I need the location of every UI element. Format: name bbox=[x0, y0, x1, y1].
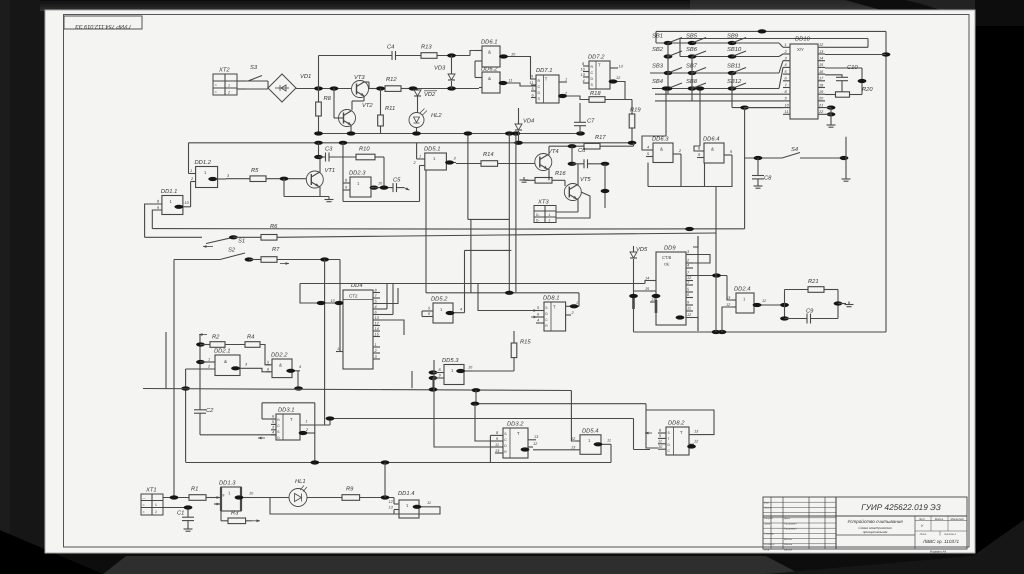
svg-text:R7: R7 bbox=[272, 247, 280, 253]
svg-text:R12: R12 bbox=[386, 76, 397, 83]
cell DD1.1 bbox=[162, 196, 183, 215]
svg-text:2: 2 bbox=[227, 91, 230, 95]
svg-text:Т.контр: Т.контр bbox=[764, 533, 774, 536]
wire trunk4 y418 bbox=[330, 418, 634, 420]
svg-text:R9: R9 bbox=[346, 486, 354, 493]
svg-text:14: 14 bbox=[819, 57, 823, 61]
wire DD9 bottom bbox=[676, 315, 685, 319]
cell DD8.2 bbox=[666, 427, 689, 455]
button row SB2 SB6 SB10 bbox=[680, 56, 779, 58]
button row SB1 SB5 SB9 bbox=[656, 42, 779, 44]
svg-text:R8: R8 bbox=[324, 95, 332, 102]
svg-text:DD2.4: DD2.4 bbox=[734, 286, 750, 293]
svg-text:4: 4 bbox=[647, 146, 649, 150]
svg-text:DD8.2: DD8.2 bbox=[668, 420, 685, 427]
svg-text:DD8.1: DD8.1 bbox=[543, 295, 559, 302]
svg-text:DD6.1: DD6.1 bbox=[481, 39, 497, 46]
wire DD1.1 pin8 drop bbox=[145, 204, 162, 237]
svg-text:4: 4 bbox=[785, 63, 787, 67]
svg-text:Листов 1: Листов 1 bbox=[943, 533, 956, 536]
svg-text:C1: C1 bbox=[177, 510, 184, 517]
logic gate DD6.4 bbox=[704, 143, 724, 163]
svg-text:SB3: SB3 bbox=[652, 63, 664, 70]
svg-text:2: 2 bbox=[155, 510, 157, 514]
svg-text:C3: C3 bbox=[325, 146, 333, 153]
svg-text:X/Y: X/Y bbox=[797, 47, 804, 52]
svg-text:11: 11 bbox=[658, 439, 662, 443]
svg-text:S4: S4 bbox=[791, 146, 798, 153]
svg-text:SB1: SB1 bbox=[652, 33, 663, 40]
svg-text:R3: R3 bbox=[231, 510, 239, 517]
svg-text:DD2.3: DD2.3 bbox=[349, 170, 366, 177]
flip-flop DD7.2 bbox=[589, 61, 610, 89]
svg-text:Разраб: Разраб bbox=[764, 517, 773, 520]
svg-text:VD5: VD5 bbox=[636, 247, 648, 253]
cell DD2.2 bbox=[272, 359, 292, 378]
wire DD10 pins 21 22 ground bbox=[827, 106, 836, 110]
svg-text:21: 21 bbox=[818, 103, 823, 107]
svg-text:DD7.1: DD7.1 bbox=[536, 68, 552, 74]
cell DD1.4 bbox=[399, 500, 419, 518]
svg-text:1: 1 bbox=[565, 78, 567, 82]
svg-text:R15: R15 bbox=[520, 340, 531, 346]
svg-text:C7: C7 bbox=[587, 118, 595, 125]
connector XT3 bbox=[534, 206, 556, 223]
svg-text:8: 8 bbox=[223, 494, 225, 498]
svg-text:T: T bbox=[668, 437, 670, 441]
wire DD9 output to DD2.4 bbox=[693, 275, 727, 277]
svg-text:DD1.4: DD1.4 bbox=[398, 491, 414, 497]
wire keypad column 1 to DD10 pin 8 bbox=[667, 43, 669, 94]
svg-text:≈: ≈ bbox=[143, 503, 145, 507]
svg-text:SB11: SB11 bbox=[727, 63, 741, 70]
wire DD6.3 out down bbox=[681, 154, 716, 233]
svg-text:R17: R17 bbox=[595, 135, 606, 141]
title block left columns bbox=[770, 497, 772, 549]
cell DD2.1 bbox=[215, 355, 240, 376]
wire trunk5 y462 bbox=[186, 462, 611, 464]
title block name cell bbox=[836, 534, 915, 536]
wire rail to DD6.2 bbox=[413, 88, 479, 90]
svg-text:R2: R2 bbox=[212, 334, 220, 341]
svg-text:C6: C6 bbox=[578, 147, 586, 154]
wire to DD6.1 bbox=[470, 51, 479, 56]
svg-text:SB10: SB10 bbox=[727, 46, 742, 53]
wire DD4 clock input bbox=[300, 284, 343, 304]
wire S4 right ground bbox=[845, 137, 847, 158]
wire keypad column 2 to DD10 pin 9 bbox=[691, 57, 693, 101]
wire S2 drop to XT1 bbox=[173, 260, 175, 498]
svg-text:Формат А4: Формат А4 bbox=[930, 550, 947, 554]
svg-text:Лист: Лист bbox=[763, 507, 772, 510]
wire DD5.3 out bbox=[472, 370, 514, 372]
svg-text:4: 4 bbox=[272, 430, 274, 434]
svg-text:14: 14 bbox=[645, 277, 649, 281]
svg-text:Джик: Джик bbox=[783, 517, 791, 520]
top-left inverted stamp bbox=[64, 16, 142, 29]
svg-text:DD7.2: DD7.2 bbox=[588, 54, 605, 61]
svg-text:R6: R6 bbox=[270, 223, 278, 230]
wire DD3.1 loop rectangle bbox=[262, 402, 315, 404]
svg-text:&: & bbox=[660, 147, 663, 152]
wire R7 to DD4 pin11 bbox=[340, 260, 343, 352]
svg-text:DD1.2: DD1.2 bbox=[195, 159, 212, 166]
svg-text:VD4: VD4 bbox=[523, 119, 534, 125]
svg-text:XT3: XT3 bbox=[537, 199, 549, 206]
svg-text:11: 11 bbox=[337, 347, 341, 351]
svg-text:HL2: HL2 bbox=[431, 112, 442, 119]
flip-flop DD7.1 bbox=[536, 75, 559, 103]
svg-text:SB4: SB4 bbox=[652, 78, 663, 85]
svg-text:принципиальная: принципиальная bbox=[863, 530, 888, 534]
wire DD7 interconnect bbox=[567, 96, 589, 100]
svg-text:1: 1 bbox=[576, 301, 578, 305]
cell DD8.1 bbox=[544, 302, 566, 331]
wire DD2.1 to DD2.2 bbox=[247, 368, 270, 372]
button row SB3 SB7 SB11 bbox=[650, 72, 779, 74]
wire DD4 out columns bbox=[478, 284, 536, 311]
svg-text:R1: R1 bbox=[191, 487, 198, 493]
svg-text:11: 11 bbox=[607, 439, 611, 443]
svg-text:2: 2 bbox=[549, 218, 551, 222]
svg-text:VT5: VT5 bbox=[580, 177, 591, 183]
svg-text:Пров: Пров bbox=[764, 522, 771, 525]
logic gate DD6.1 bbox=[482, 46, 500, 67]
svg-text:T: T bbox=[290, 417, 293, 422]
svg-text:DD1.1: DD1.1 bbox=[161, 189, 177, 195]
wire DD2.2 out to trunk bbox=[297, 371, 299, 389]
wire DD1.1 pin9 to trunk1 bbox=[152, 210, 162, 229]
svg-text:R5: R5 bbox=[251, 168, 259, 174]
wire to top row bbox=[318, 56, 320, 89]
svg-text:DD2.1: DD2.1 bbox=[214, 348, 230, 355]
svg-text:Русакевич: Русакевич bbox=[784, 522, 797, 525]
svg-text:Русакевич: Русакевич bbox=[784, 528, 797, 531]
svg-text:11: 11 bbox=[509, 79, 513, 83]
cell DD1.2 bbox=[196, 167, 218, 188]
wire stub vertical x166 bbox=[165, 332, 167, 389]
wire DD8.2 loop bbox=[646, 410, 714, 435]
title block frame bbox=[763, 497, 967, 549]
svg-text:DD6.2: DD6.2 bbox=[481, 66, 498, 73]
svg-text:11: 11 bbox=[785, 110, 789, 114]
svg-text:R4: R4 bbox=[247, 335, 254, 341]
svg-text:VT1: VT1 bbox=[325, 168, 336, 174]
svg-text:&: & bbox=[488, 50, 491, 55]
svg-text:CT2: CT2 bbox=[349, 294, 358, 299]
svg-text:ГУИР 754.112.019 ЭЗ: ГУИР 754.112.019 ЭЗ bbox=[75, 23, 131, 29]
svg-text:R: R bbox=[538, 79, 541, 83]
svg-text:1: 1 bbox=[419, 155, 421, 159]
svg-text:VT3: VT3 bbox=[354, 74, 365, 81]
svg-text:4: 4 bbox=[687, 264, 689, 268]
svg-text:Изм: Изм bbox=[764, 502, 769, 505]
wire DD1.4 loop bbox=[270, 498, 440, 515]
wire DD6.1 out bbox=[510, 57, 536, 80]
svg-text:≈: ≈ bbox=[143, 510, 145, 514]
wire R10 down to DD2.3 output bbox=[383, 157, 385, 188]
svg-text:&: & bbox=[279, 363, 282, 368]
svg-text:SB5: SB5 bbox=[686, 33, 698, 40]
svg-text:1: 1 bbox=[228, 84, 230, 88]
wire net y403 bbox=[475, 403, 646, 405]
svg-text:11: 11 bbox=[495, 443, 499, 447]
svg-text:C2: C2 bbox=[206, 407, 214, 414]
wire DD2.3 loop to DD5.1 pin2 bbox=[339, 141, 348, 145]
wire keypad top bus bbox=[656, 30, 886, 32]
svg-text:DD6.4: DD6.4 bbox=[703, 136, 719, 143]
svg-text:SB12: SB12 bbox=[727, 78, 742, 85]
wire DD10 pin13 to right bus bbox=[825, 54, 886, 56]
svg-text:4: 4 bbox=[460, 308, 462, 312]
counter DD9 bbox=[656, 252, 686, 325]
logic gate DD6.3 bbox=[653, 143, 673, 163]
svg-text:1: 1 bbox=[375, 343, 377, 347]
svg-text:T: T bbox=[553, 305, 556, 310]
svg-text:ЛВВС гр. 110371: ЛВВС гр. 110371 bbox=[922, 539, 960, 544]
svg-text:R20: R20 bbox=[862, 86, 873, 93]
wire DD6.3 feed bbox=[665, 89, 667, 137]
cell DD5.3 bbox=[444, 365, 464, 385]
wire trunk3 y389 bbox=[143, 389, 571, 391]
wire C2 to DD3.1 bbox=[200, 434, 276, 436]
svg-text:HL1: HL1 bbox=[295, 479, 306, 485]
wire DD3.2 to DD5.4 bbox=[533, 449, 576, 451]
svg-text:4: 4 bbox=[537, 319, 539, 323]
svg-text:DD3.2: DD3.2 bbox=[507, 421, 524, 428]
svg-text:DD5.1: DD5.1 bbox=[424, 147, 440, 153]
svg-text:R18: R18 bbox=[590, 90, 601, 97]
wire DD6.4 out down bbox=[716, 155, 732, 187]
svg-text:11: 11 bbox=[530, 81, 534, 85]
svg-text:XT2: XT2 bbox=[218, 67, 230, 74]
svg-text:Н.контр: Н.контр bbox=[764, 543, 775, 546]
svg-text:C: C bbox=[591, 71, 594, 75]
svg-text:Батин: Батин bbox=[784, 548, 793, 551]
svg-text:1: 1 bbox=[785, 43, 787, 47]
counter DD4 bbox=[343, 290, 373, 369]
logic gate DD6.2 bbox=[482, 72, 500, 93]
wire DD4 outputs to gates bbox=[386, 284, 388, 310]
svg-text:1: 1 bbox=[190, 169, 192, 173]
svg-text:DD9: DD9 bbox=[664, 245, 676, 252]
svg-text:&: & bbox=[488, 76, 491, 81]
svg-text:Устройство считывания: Устройство считывания bbox=[847, 519, 903, 524]
wire input arrow bbox=[199, 333, 207, 336]
svg-text:4: 4 bbox=[583, 79, 585, 83]
svg-text:DD1.3: DD1.3 bbox=[219, 480, 236, 487]
svg-text:20: 20 bbox=[818, 97, 824, 101]
svg-text:C5: C5 bbox=[393, 177, 401, 184]
svg-text:VT2: VT2 bbox=[362, 102, 373, 109]
connector XT2 bbox=[213, 74, 237, 95]
svg-text:Казека: Казека bbox=[784, 543, 793, 546]
wire main rail y88 bbox=[296, 88, 351, 90]
svg-text:CT/8: CT/8 bbox=[662, 255, 672, 260]
svg-text:DD5.4: DD5.4 bbox=[582, 428, 598, 434]
svg-text:4: 4 bbox=[299, 365, 301, 369]
cell DD2.4 bbox=[736, 293, 754, 313]
svg-text:VD1: VD1 bbox=[300, 74, 311, 80]
wire DD3.2 feeds bbox=[434, 360, 490, 447]
svg-text:Масса: Масса bbox=[935, 517, 944, 521]
wire riser x470 bbox=[470, 219, 472, 292]
wire R7 drop to DD3.1 output1 bbox=[324, 260, 326, 426]
wire trunk upper y283 bbox=[300, 283, 645, 285]
svg-text:C8: C8 bbox=[764, 175, 772, 182]
wire vertical to trunk5 bbox=[384, 463, 386, 498]
svg-text:22: 22 bbox=[818, 110, 824, 114]
ground rail wire y133 bbox=[319, 133, 581, 135]
svg-text:DD10: DD10 bbox=[795, 36, 811, 43]
svg-text:T: T bbox=[545, 77, 548, 82]
svg-text:DD2.2: DD2.2 bbox=[271, 352, 288, 359]
wire trunk drop to DD5.1 pin1 bbox=[416, 143, 418, 159]
title block right cells bbox=[914, 516, 916, 549]
svg-text:R13: R13 bbox=[421, 44, 432, 51]
connector XT1 bbox=[141, 494, 163, 515]
svg-text:D: D bbox=[538, 91, 541, 95]
svg-text:DD3.1: DD3.1 bbox=[278, 407, 294, 414]
cell DD5.4 bbox=[580, 435, 601, 455]
svg-text:SB6: SB6 bbox=[686, 46, 698, 53]
svg-text:14: 14 bbox=[375, 327, 379, 331]
cell DD1.3 bbox=[221, 487, 241, 511]
wire DD9 left thick marks bbox=[632, 296, 635, 309]
svg-text:C4: C4 bbox=[387, 44, 394, 51]
wire DD10 lower pins to trunk bbox=[740, 106, 749, 110]
svg-text:SB9: SB9 bbox=[727, 33, 739, 40]
svg-text:OE: OE bbox=[664, 263, 670, 267]
svg-text:DD5.2: DD5.2 bbox=[431, 296, 448, 303]
svg-text:DD5.3: DD5.3 bbox=[442, 357, 459, 364]
svg-text:1: 1 bbox=[155, 503, 157, 507]
wire DD1.2 feedback bbox=[188, 143, 190, 174]
svg-text:&: & bbox=[711, 147, 714, 152]
svg-text:VT4: VT4 bbox=[548, 149, 559, 155]
cell DD5.2 bbox=[433, 303, 453, 323]
svg-text:C: C bbox=[538, 85, 541, 89]
svg-text:R: R bbox=[591, 65, 594, 69]
svg-text:R14: R14 bbox=[483, 152, 494, 158]
wire DD3.1 output1 to trunk4 bbox=[300, 424, 330, 426]
wire XT2 to S3 bbox=[237, 80, 246, 82]
svg-text:SB2: SB2 bbox=[652, 46, 664, 53]
svg-text:Утв: Утв bbox=[764, 548, 770, 551]
svg-text:1: 1 bbox=[549, 213, 551, 217]
cell DD3.2 bbox=[503, 428, 528, 458]
decoder DD10 bbox=[790, 44, 818, 119]
svg-text:VD2: VD2 bbox=[424, 91, 436, 98]
wire pin2 feed vertical x185 bbox=[185, 369, 187, 463]
svg-text:Шилин: Шилин bbox=[784, 538, 793, 541]
svg-text:S2: S2 bbox=[228, 247, 236, 254]
wire XT1 out bbox=[163, 497, 189, 499]
svg-text:11: 11 bbox=[687, 307, 691, 311]
svg-text:T: T bbox=[598, 63, 601, 68]
svg-text:D: D bbox=[591, 77, 594, 81]
cell DD2.3 bbox=[350, 177, 371, 197]
wire DD9 top loops bbox=[693, 255, 710, 264]
wire trunk1 bbox=[152, 228, 744, 231]
wire DD10 pin12 up bbox=[825, 46, 868, 48]
wire XT3 loop bbox=[556, 211, 578, 213]
wire node loop x468 bbox=[467, 134, 469, 220]
wire DD6.4 feed bbox=[699, 89, 701, 147]
wire DD3.1 output2 bbox=[300, 432, 315, 434]
wire keypad column 3 to DD10 pin 10 bbox=[731, 73, 733, 108]
wire DD5.2 out riser bbox=[464, 250, 466, 312]
svg-text:Масштаб: Масштаб bbox=[950, 517, 963, 521]
svg-text:R10: R10 bbox=[359, 146, 370, 153]
svg-text:1: 1 bbox=[208, 358, 210, 362]
svg-text:11: 11 bbox=[762, 299, 766, 303]
svg-text:R16: R16 bbox=[555, 170, 566, 177]
button row SB4 SB8 SB12 bbox=[652, 88, 779, 90]
svg-text:1: 1 bbox=[306, 420, 308, 424]
wire trunk y143 bbox=[189, 142, 634, 144]
svg-text:Лит.: Лит. bbox=[918, 517, 926, 521]
svg-text:Лист: Лист bbox=[919, 533, 928, 536]
svg-text:R21: R21 bbox=[808, 278, 819, 285]
svg-text:T: T bbox=[680, 430, 683, 435]
svg-text:C9: C9 bbox=[806, 308, 814, 315]
svg-text:S1: S1 bbox=[238, 238, 245, 245]
cell DD5.1 bbox=[425, 153, 447, 170]
svg-text:XT1: XT1 bbox=[145, 488, 157, 494]
svg-text:1: 1 bbox=[687, 281, 689, 285]
svg-text:D-: D- bbox=[536, 213, 540, 217]
svg-text:11: 11 bbox=[427, 501, 431, 505]
svg-text:VD3: VD3 bbox=[434, 65, 446, 72]
svg-text:T: T bbox=[517, 431, 520, 436]
wire DD5.1 long loop bbox=[425, 170, 427, 293]
svg-text:ГУИР 425622.019 ЭЗ: ГУИР 425622.019 ЭЗ bbox=[861, 503, 941, 512]
svg-text:S3: S3 bbox=[250, 64, 258, 71]
svg-text:D-: D- bbox=[536, 218, 540, 222]
cell DD3.1 bbox=[276, 414, 300, 440]
svg-text:&: & bbox=[224, 359, 227, 364]
svg-text:R11: R11 bbox=[385, 106, 395, 112]
svg-text:4: 4 bbox=[375, 305, 377, 309]
wire trunk y332 bbox=[634, 331, 887, 333]
